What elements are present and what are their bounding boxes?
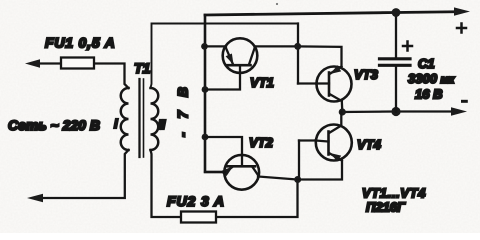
svg-text:II: II: [158, 117, 166, 132]
label + (C1 polarity): [403, 42, 412, 51]
svg-text:VT3: VT3: [354, 67, 379, 82]
capacitor C1: [380, 59, 411, 112]
fuse FU2: [181, 212, 216, 223]
node: C1 top junction: [392, 8, 401, 17]
terminal arrow: minus output: [451, 107, 467, 115]
svg-text:16 В: 16 В: [415, 87, 442, 102]
svg-text:VT1: VT1: [250, 75, 274, 90]
label + (output): [457, 24, 466, 33]
label - (output): [461, 100, 468, 103]
transistor VT4: [316, 112, 352, 162]
wire: top plus rail: [205, 12, 455, 15]
wire: VT4 emitter bottom: [298, 161, 343, 180]
paper speck: [276, 3, 278, 5]
terminal arrow: mains top left: [25, 59, 40, 68]
wire: left rail (collector VT1 / VT2 side): [205, 15, 225, 172]
node: AC1 junction: [294, 43, 301, 50]
transistor VT2: [205, 137, 298, 190]
node: AC2 junction: [294, 176, 301, 183]
wire: secondary top lead to AC node (crossover, no dot): [151, 24, 299, 89]
svg-text:T1: T1: [134, 60, 151, 76]
wire: AC node 1 vertical (VT1 collector, VT3 emitter+base): [297, 24, 299, 84]
wire: minus rail from VT3/VT4 node to arrow: [342, 110, 452, 113]
wire: mains bottom lead from T1 primary to arrow: [41, 150, 129, 198]
svg-text:FU1 0,5 A: FU1 0,5 A: [45, 35, 115, 51]
svg-text:- 7 В: - 7 В: [175, 82, 191, 137]
terminal arrow: plus output: [454, 7, 470, 15]
wire: C1 top lead: [395, 13, 397, 59]
terminal arrow: mains bottom left: [27, 194, 43, 203]
wire: mains top lead from arrow through FU1 to T1 primary: [38, 64, 129, 89]
node: C1 bottom junction: [391, 107, 400, 116]
svg-text:VT4: VT4: [357, 137, 382, 152]
svg-text:FU2 3 A: FU2 3 A: [167, 193, 225, 209]
node: VT1 base to rail: [202, 86, 209, 93]
svg-text:Сеть ~ 220 В: Сеть ~ 220 В: [8, 117, 100, 133]
fuse FU1: [61, 58, 94, 69]
svg-text:3300 мк: 3300 мк: [408, 71, 456, 86]
svg-text:VT1...VT4: VT1...VT4: [362, 186, 426, 201]
transformer T1 primary winding: [121, 88, 129, 150]
transformer T1 secondary winding: [151, 88, 159, 150]
node: VT1 emitter to rail: [201, 43, 208, 50]
node: VT3-VT4 junction: [339, 108, 346, 115]
node: VT2 base to rail: [202, 134, 209, 141]
wire: secondary bottom lead to FU2: [151, 150, 298, 217]
transistor VT1: [205, 38, 298, 89]
svg-text:VT2: VT2: [249, 135, 274, 150]
svg-text:C1: C1: [418, 56, 435, 71]
wire: AC node 2 vertical (VT4 base, VT2 collector, FU2): [298, 141, 300, 180]
svg-text:I: I: [114, 116, 118, 131]
transistor VT3: [316, 65, 352, 112]
svg-text:П216Г: П216Г: [366, 200, 406, 215]
transformer core: [138, 79, 140, 157]
